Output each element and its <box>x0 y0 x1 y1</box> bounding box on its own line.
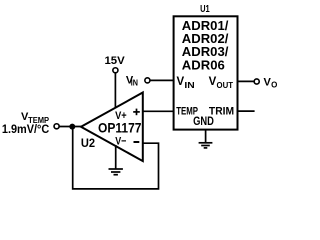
svg-text:OP1177: OP1177 <box>98 119 142 135</box>
terminal circle VOUT <box>254 79 259 84</box>
svg-text:1.9mV/°C: 1.9mV/°C <box>2 122 50 136</box>
node label VTEMP <box>21 111 50 125</box>
ground (U1) <box>199 143 213 148</box>
wire TRIM stub <box>238 110 255 112</box>
terminal circle 15V <box>113 68 118 73</box>
svg-text:ADR01/: ADR01/ <box>182 19 229 33</box>
U1 value label ADR01/ADR02/ADR03/ADR06 <box>182 19 229 72</box>
svg-text:U1: U1 <box>200 4 210 15</box>
wire 15V to op-amp V+ <box>114 73 116 109</box>
op-amp U2 triangle (OP1177) <box>81 93 143 162</box>
svg-text:V: V <box>209 76 217 88</box>
op-amp noninverting input + <box>133 109 140 116</box>
svg-text:ADR02/: ADR02/ <box>182 32 229 46</box>
U1 pin label VOUT <box>209 76 234 90</box>
svg-text:ADR06: ADR06 <box>182 58 225 72</box>
svg-text:O: O <box>271 81 277 90</box>
wire feedback: node down, across bottom, up to inverting input <box>73 127 159 189</box>
wire U1 GND pin down <box>205 130 207 143</box>
svg-text:15V: 15V <box>105 55 126 67</box>
node label VO <box>264 76 278 89</box>
svg-text:IN: IN <box>131 79 138 88</box>
wire U1 VOUT pin to VO terminal <box>238 80 255 82</box>
wire op-amp V- pin down to ground <box>115 145 117 169</box>
wire VTEMP terminal to op-amp output <box>59 126 81 128</box>
ground (op-amp) <box>109 169 123 175</box>
IC U1 body (ADR01/ADR02/ADR03/ADR06) <box>174 16 238 129</box>
svg-text:OUT: OUT <box>217 80 234 90</box>
U1 pin label VIN <box>177 76 195 90</box>
junction node dot <box>69 124 75 130</box>
svg-text:V−: V− <box>115 135 126 147</box>
op-amp inverting input - <box>134 141 140 143</box>
terminal circle VIN <box>145 78 150 83</box>
terminal circle VTEMP <box>54 124 59 129</box>
svg-text:GND: GND <box>193 114 214 128</box>
svg-text:U2: U2 <box>81 138 95 150</box>
svg-text:V: V <box>177 76 185 88</box>
svg-text:IN: IN <box>184 80 194 90</box>
svg-text:ADR03/: ADR03/ <box>182 45 229 59</box>
wire TEMP pin to op-amp + input <box>143 110 174 112</box>
node label VIN <box>126 74 138 87</box>
wire VIN terminal to U1 VIN pin <box>150 79 174 81</box>
